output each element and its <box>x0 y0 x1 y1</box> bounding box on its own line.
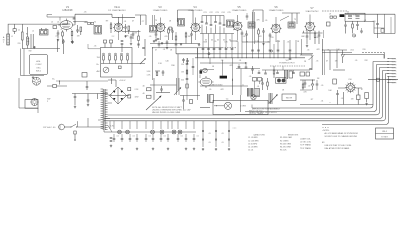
svg-text:12BA6/TUNED: 12BA6/TUNED <box>188 9 203 12</box>
capacitor C33 <box>187 58 189 61</box>
svg-text:CR-1: CR-1 <box>382 131 388 133</box>
wire antenna to grid bus <box>8 24 43 34</box>
resistor R7 <box>168 28 170 30</box>
svg-text:.05: .05 <box>221 142 223 144</box>
dark label box <box>340 14 345 17</box>
pilot lamp 5 <box>172 130 176 134</box>
capacitor C53 <box>158 44 161 45</box>
lamp <box>251 95 256 100</box>
resistor R4 <box>80 27 82 32</box>
shield border <box>153 48 223 80</box>
tube V8 <box>199 76 214 88</box>
ground <box>33 46 35 49</box>
svg-text:RESISTORS: RESISTORS <box>288 134 299 136</box>
antenna coil L1 <box>7 34 10 45</box>
IF transformer T2 <box>150 26 158 33</box>
svg-text:10W: 10W <box>135 97 139 99</box>
svg-text:TO P5: TO P5 <box>392 70 397 72</box>
comb extra caps <box>251 50 254 51</box>
svg-text:LINE VOLTS AT 117 V.A.C. NOM.: LINE VOLTS AT 117 V.A.C. NOM. <box>325 144 352 147</box>
wire <box>72 93 108 95</box>
resistor R1 <box>22 32 24 40</box>
dark label plate <box>220 76 227 79</box>
capacitor C38 <box>304 83 307 84</box>
svg-text:.05: .05 <box>149 36 152 38</box>
svg-text:12BA6/TUNED: 12BA6/TUNED <box>269 9 284 12</box>
svg-text:47: 47 <box>132 21 134 23</box>
wire diagonal <box>280 16 289 21</box>
capacitor C46 <box>130 37 133 38</box>
svg-text:47: 47 <box>361 89 363 91</box>
bypass leg 2 <box>215 121 217 147</box>
svg-text:1M: 1M <box>351 99 354 101</box>
wire <box>150 84 177 86</box>
capacitor C32 <box>183 58 185 60</box>
plug P1 <box>59 124 65 130</box>
loop wire 2 <box>245 65 388 112</box>
capacitor C35 <box>252 66 254 69</box>
wire <box>47 17 75 24</box>
svg-text:12BA6/RF: 12BA6/RF <box>62 9 73 12</box>
svg-text:470: 470 <box>372 21 375 23</box>
svg-text:.05: .05 <box>316 61 319 63</box>
capacitor C13 <box>191 32 193 34</box>
ground <box>124 35 126 38</box>
wire <box>300 89 312 91</box>
svg-text:.01: .01 <box>321 101 324 103</box>
svg-text:.05: .05 <box>94 46 97 48</box>
svg-text:.05: .05 <box>321 85 324 87</box>
svg-text:470: 470 <box>164 36 167 38</box>
component column <box>186 58 188 100</box>
capacitor C26 <box>87 94 89 101</box>
svg-text:2.2M: 2.2M <box>255 41 260 43</box>
tube V3 <box>155 22 166 33</box>
svg-text:.05: .05 <box>84 22 87 24</box>
power transformer T7 <box>103 89 105 130</box>
output transformer T6 <box>208 94 210 103</box>
wire <box>97 94 99 100</box>
svg-text:HORIZ. LIN. VERT. HOLD WIDTH: HORIZ. LIN. VERT. HOLD WIDTH <box>249 112 277 114</box>
rotary switch SW2 box <box>25 100 38 109</box>
node <box>59 80 60 81</box>
wire top right <box>368 79 398 81</box>
svg-text:VALUES IN MFD. K=1000 OHMS: VALUES IN MFD. K=1000 OHMS <box>152 111 181 114</box>
loop wire 6 <box>322 77 389 125</box>
svg-text:C23: C23 <box>215 12 218 14</box>
title box <box>376 128 394 139</box>
svg-text:ALL VOLTAGES MEAS. W/ VTVM FRO: ALL VOLTAGES MEAS. W/ VTVM FROM <box>325 132 359 135</box>
heater bus <box>104 131 196 133</box>
svg-text:.01: .01 <box>132 136 134 138</box>
svg-text:1/2 12AX7/AUDIO: 1/2 12AX7/AUDIO <box>108 9 126 12</box>
wire main bus 1 <box>176 53 313 55</box>
ground <box>153 40 155 43</box>
bridge rectifier CR1 <box>110 87 127 104</box>
svg-text:.05: .05 <box>341 98 344 100</box>
rotary switch SW2 <box>31 98 38 105</box>
svg-text:.01: .01 <box>163 49 166 51</box>
capacitor C19 <box>377 14 379 23</box>
wire <box>330 50 337 70</box>
svg-text:.05: .05 <box>221 60 224 62</box>
ground <box>161 42 163 45</box>
resistor bank <box>103 53 105 55</box>
svg-text:V6: V6 <box>274 5 278 9</box>
more top wires <box>88 44 100 49</box>
wire <box>323 50 325 75</box>
svg-text:.05: .05 <box>307 50 310 52</box>
svg-text:40: 40 <box>142 85 144 87</box>
capacitor C34 <box>162 72 165 73</box>
svg-text:R3 22K OHM: R3 22K OHM <box>280 143 291 145</box>
tube plate wires <box>161 15 311 23</box>
svg-text:05: 05 <box>229 40 231 42</box>
wire <box>390 17 392 34</box>
tube V4 <box>190 22 201 33</box>
svg-text:L1: L1 <box>11 36 13 38</box>
resistor R3 <box>71 30 73 31</box>
junction circle <box>208 53 210 55</box>
capacitor C31 <box>142 48 145 49</box>
resistor R9 <box>258 28 260 30</box>
tube V5 <box>232 20 243 31</box>
capacitor C16 <box>246 31 248 35</box>
svg-text:12BA6/TUNED: 12BA6/TUNED <box>153 9 168 12</box>
svg-text:V3: V3 <box>158 5 162 9</box>
svg-text:T2 IF TRANS: T2 IF TRANS <box>300 147 312 150</box>
svg-text:C2 .001 MFD: C2 .001 MFD <box>248 140 259 142</box>
bypass leg 1 <box>202 121 204 147</box>
svg-text:220: 220 <box>55 36 58 38</box>
svg-text:R9: R9 <box>106 21 108 23</box>
svg-text:TV SET: TV SET <box>381 137 389 139</box>
wire AVC bus <box>150 43 200 45</box>
svg-text:.05: .05 <box>316 37 319 39</box>
wire <box>322 39 324 75</box>
svg-text:R30: R30 <box>171 65 174 67</box>
svg-text:12BA6/TUNED: 12BA6/TUNED <box>232 9 247 12</box>
svg-text:R4 470 OHM: R4 470 OHM <box>280 147 291 149</box>
wire <box>180 95 200 97</box>
svg-text:T7: T7 <box>242 85 244 87</box>
capacitor C25 <box>74 94 76 97</box>
speaker <box>224 102 231 109</box>
svg-text:40: 40 <box>142 93 144 95</box>
pilot lamp 2 <box>126 130 130 134</box>
tube V7 <box>304 21 315 33</box>
wire <box>21 75 45 77</box>
wire <box>255 81 260 88</box>
terminal strip <box>388 58 396 60</box>
rotary switch SW1 <box>33 77 41 85</box>
stage drop wires <box>237 42 239 58</box>
svg-text:C4 .05 MFD: C4 .05 MFD <box>248 147 258 149</box>
capacitor C5 <box>77 25 79 30</box>
potentiometer VR3 <box>300 55 312 70</box>
dots <box>322 126 325 129</box>
resistor R8 <box>185 32 187 33</box>
svg-text:.01: .01 <box>239 60 242 62</box>
wire <box>127 95 130 97</box>
wire <box>253 10 263 22</box>
wire <box>153 78 155 100</box>
svg-text:320: 320 <box>181 80 184 82</box>
ground <box>198 44 200 47</box>
capacitor C6 <box>73 18 76 19</box>
svg-text:47: 47 <box>326 61 328 63</box>
svg-text:47: 47 <box>246 42 248 44</box>
svg-text:T1 IF TRANS: T1 IF TRANS <box>300 144 312 147</box>
resistor R17 <box>273 70 275 74</box>
svg-text:TO P3: TO P3 <box>392 64 397 66</box>
wire <box>21 49 25 76</box>
svg-text:V4: V4 <box>193 5 197 9</box>
wire AC line <box>77 126 105 128</box>
wire <box>343 92 345 105</box>
wire <box>144 39 146 56</box>
wire <box>232 78 234 95</box>
svg-text:TO P8: TO P8 <box>392 79 397 81</box>
IF transformer T4 <box>248 22 255 28</box>
capacitor C29 <box>121 41 124 42</box>
resistor R6 <box>128 26 130 31</box>
capacitor C28 <box>110 40 113 43</box>
capacitor C47 <box>166 42 169 43</box>
wire <box>232 58 234 78</box>
capacitor C9 <box>125 24 127 27</box>
svg-text:T2: T2 <box>94 22 96 24</box>
capacitor C12 <box>172 28 174 32</box>
resistor R18 <box>190 100 193 104</box>
svg-text:C22: C22 <box>209 12 212 14</box>
capacitor C49 <box>238 67 241 68</box>
resistor R10 <box>345 21 347 24</box>
svg-text:R5 2.2K: R5 2.2K <box>280 150 287 152</box>
svg-text:1M: 1M <box>188 36 191 38</box>
capacitor C23 <box>72 40 74 42</box>
wire pair <box>253 12 255 44</box>
svg-text:.01: .01 <box>124 21 127 23</box>
svg-text:DIAL AT MID POINT OF BAND: DIAL AT MID POINT OF BAND <box>325 147 350 150</box>
IF transformer T1 <box>40 30 49 36</box>
svg-text:220: 220 <box>18 43 21 45</box>
heater drops <box>109 121 111 129</box>
svg-text:L2 OSC COIL: L2 OSC COIL <box>300 142 311 144</box>
svg-text:• NOTE:: • NOTE: <box>322 130 330 132</box>
svg-text:R1 470K OHM: R1 470K OHM <box>280 137 292 139</box>
svg-text:.05: .05 <box>249 76 252 78</box>
heater caps <box>113 139 116 140</box>
IF transformer T4a <box>227 20 235 27</box>
tube V1 <box>58 19 74 32</box>
resistor R24 <box>302 84 304 88</box>
ground <box>180 43 182 46</box>
node <box>389 79 390 80</box>
bypass leg 3 <box>228 121 230 147</box>
svg-text:C40: C40 <box>165 61 168 63</box>
capacitor C14 <box>263 28 265 31</box>
switch SW3 <box>71 124 76 127</box>
svg-text:.05: .05 <box>287 42 290 44</box>
component box <box>82 73 87 78</box>
capacitor C39 <box>333 79 337 84</box>
svg-text:R1: R1 <box>26 34 28 36</box>
wire <box>176 48 178 90</box>
tube V2 <box>113 22 124 33</box>
svg-text:L1 ANT COIL: L1 ANT COIL <box>300 138 311 141</box>
wire <box>242 41 270 43</box>
svg-text:TO P7: TO P7 <box>392 76 397 78</box>
wire <box>300 79 315 81</box>
wire <box>73 21 88 23</box>
svg-text:.05: .05 <box>221 133 223 135</box>
svg-text:POWER/OUTPUT: POWER/OUTPUT <box>279 62 295 64</box>
capacitor C42 <box>147 88 152 91</box>
svg-text:.05: .05 <box>209 89 212 91</box>
svg-text:.01: .01 <box>257 86 260 88</box>
svg-text:T5: T5 <box>294 19 296 21</box>
capacitor C10 <box>132 34 135 35</box>
wire <box>47 15 52 18</box>
svg-text:WIDTH: WIDTH <box>286 98 293 100</box>
terminal boxes <box>253 78 257 82</box>
svg-text:C3: C3 <box>60 22 62 24</box>
wire <box>31 34 33 49</box>
wire main bus 2 <box>195 57 305 59</box>
wire <box>57 39 59 52</box>
ion trap box <box>282 94 296 101</box>
control box <box>101 48 133 78</box>
capacitor C36 <box>183 96 185 101</box>
IF transformer T3 <box>178 19 185 27</box>
capacitor C30 <box>119 66 122 69</box>
svg-text:OSC: OSC <box>36 67 41 69</box>
svg-text:.05: .05 <box>208 142 210 144</box>
svg-text:x: x <box>330 102 331 104</box>
svg-text:V2-A: V2-A <box>114 5 120 9</box>
svg-text:05: 05 <box>217 40 219 42</box>
svg-text:115 V.A.C. 60: 115 V.A.C. 60 <box>43 126 56 129</box>
capacitor C17 <box>269 33 271 35</box>
svg-text:4 OHM: 4 OHM <box>240 106 246 108</box>
capacitor C1 <box>13 29 16 32</box>
svg-text:.05: .05 <box>236 41 239 43</box>
coil box <box>345 13 365 21</box>
capacitor C52 <box>360 31 363 32</box>
resistor R15 <box>53 85 57 88</box>
potentiometer VR1 <box>103 67 109 73</box>
pilot lamp 4 <box>160 130 164 134</box>
capacitor C21 <box>318 31 320 35</box>
capacitor C18 <box>330 16 333 18</box>
svg-text:.01: .01 <box>148 136 150 138</box>
wire dashed <box>270 65 305 67</box>
svg-text:V5: V5 <box>237 5 241 9</box>
heater grounds <box>121 148 123 151</box>
box component <box>300 72 305 76</box>
tube V6 <box>271 23 282 34</box>
svg-text:V7: V7 <box>310 6 314 10</box>
diode D1 <box>311 84 314 87</box>
pilot lamp 3 <box>151 130 155 134</box>
wire plate bus <box>43 23 68 25</box>
volume pot <box>177 78 180 95</box>
svg-text:470K: 470K <box>276 41 281 43</box>
svg-text:TO P2: TO P2 <box>392 61 397 63</box>
capacitor comb lower <box>202 34 204 58</box>
capacitor bank <box>201 16 203 34</box>
wire <box>262 69 310 71</box>
svg-text:CAPACITORS: CAPACITORS <box>253 133 265 136</box>
capacitor C11 <box>155 32 157 34</box>
wire B+ bus <box>56 80 108 82</box>
wire <box>384 14 386 33</box>
svg-text:CONV: CONV <box>35 64 42 66</box>
wire <box>100 14 135 23</box>
capacitor C45 <box>316 84 319 85</box>
capacitor C37 <box>262 78 264 83</box>
yoke winding 1 <box>248 88 253 97</box>
yoke winding 2 <box>269 93 272 104</box>
capacitor C54 <box>175 44 178 45</box>
ground <box>32 76 34 79</box>
capacitor C27 <box>104 40 107 43</box>
svg-text:SW-1: SW-1 <box>36 71 42 73</box>
svg-text:C3 10 MFD: C3 10 MFD <box>248 143 258 145</box>
svg-text:2.2: 2.2 <box>112 36 115 38</box>
annotation arrow <box>146 97 161 111</box>
wire <box>300 104 373 106</box>
svg-text:TO P6: TO P6 <box>392 73 397 75</box>
wire <box>236 68 260 70</box>
resistor R13 <box>303 31 305 33</box>
svg-text:L10: L10 <box>353 15 356 17</box>
svg-text:1M: 1M <box>335 61 338 63</box>
pilot lamp 6 <box>178 130 182 134</box>
wire <box>200 69 214 71</box>
loop wire 3 <box>235 68 388 115</box>
output transformer T8 <box>285 70 288 79</box>
wire coupling <box>123 31 141 33</box>
component <box>169 27 172 30</box>
svg-text:220K: 220K <box>203 42 208 44</box>
wire <box>135 15 146 25</box>
svg-text:x x x: x x x <box>233 128 237 130</box>
resistor R11 <box>352 21 354 24</box>
coil L2 <box>27 37 29 45</box>
wire <box>108 78 116 87</box>
svg-text:470: 470 <box>303 92 306 94</box>
svg-text:T3: T3 <box>155 20 157 22</box>
junction circle 3 <box>352 34 355 37</box>
fuse F1 <box>74 131 76 134</box>
wire <box>338 87 362 89</box>
wire B+ feed <box>75 14 100 25</box>
capacitor C50 <box>245 67 248 68</box>
resistor R21 <box>365 93 369 99</box>
wire bus <box>200 33 234 35</box>
capacitor pair <box>88 22 91 24</box>
wire top <box>202 15 224 17</box>
resistor R5 <box>110 22 112 24</box>
svg-text:V1: V1 <box>66 5 70 9</box>
component box V7 <box>327 22 331 26</box>
wire <box>200 62 246 64</box>
svg-text:220: 220 <box>270 37 273 39</box>
speaker box <box>213 100 268 114</box>
capacitor C4 <box>57 30 59 33</box>
